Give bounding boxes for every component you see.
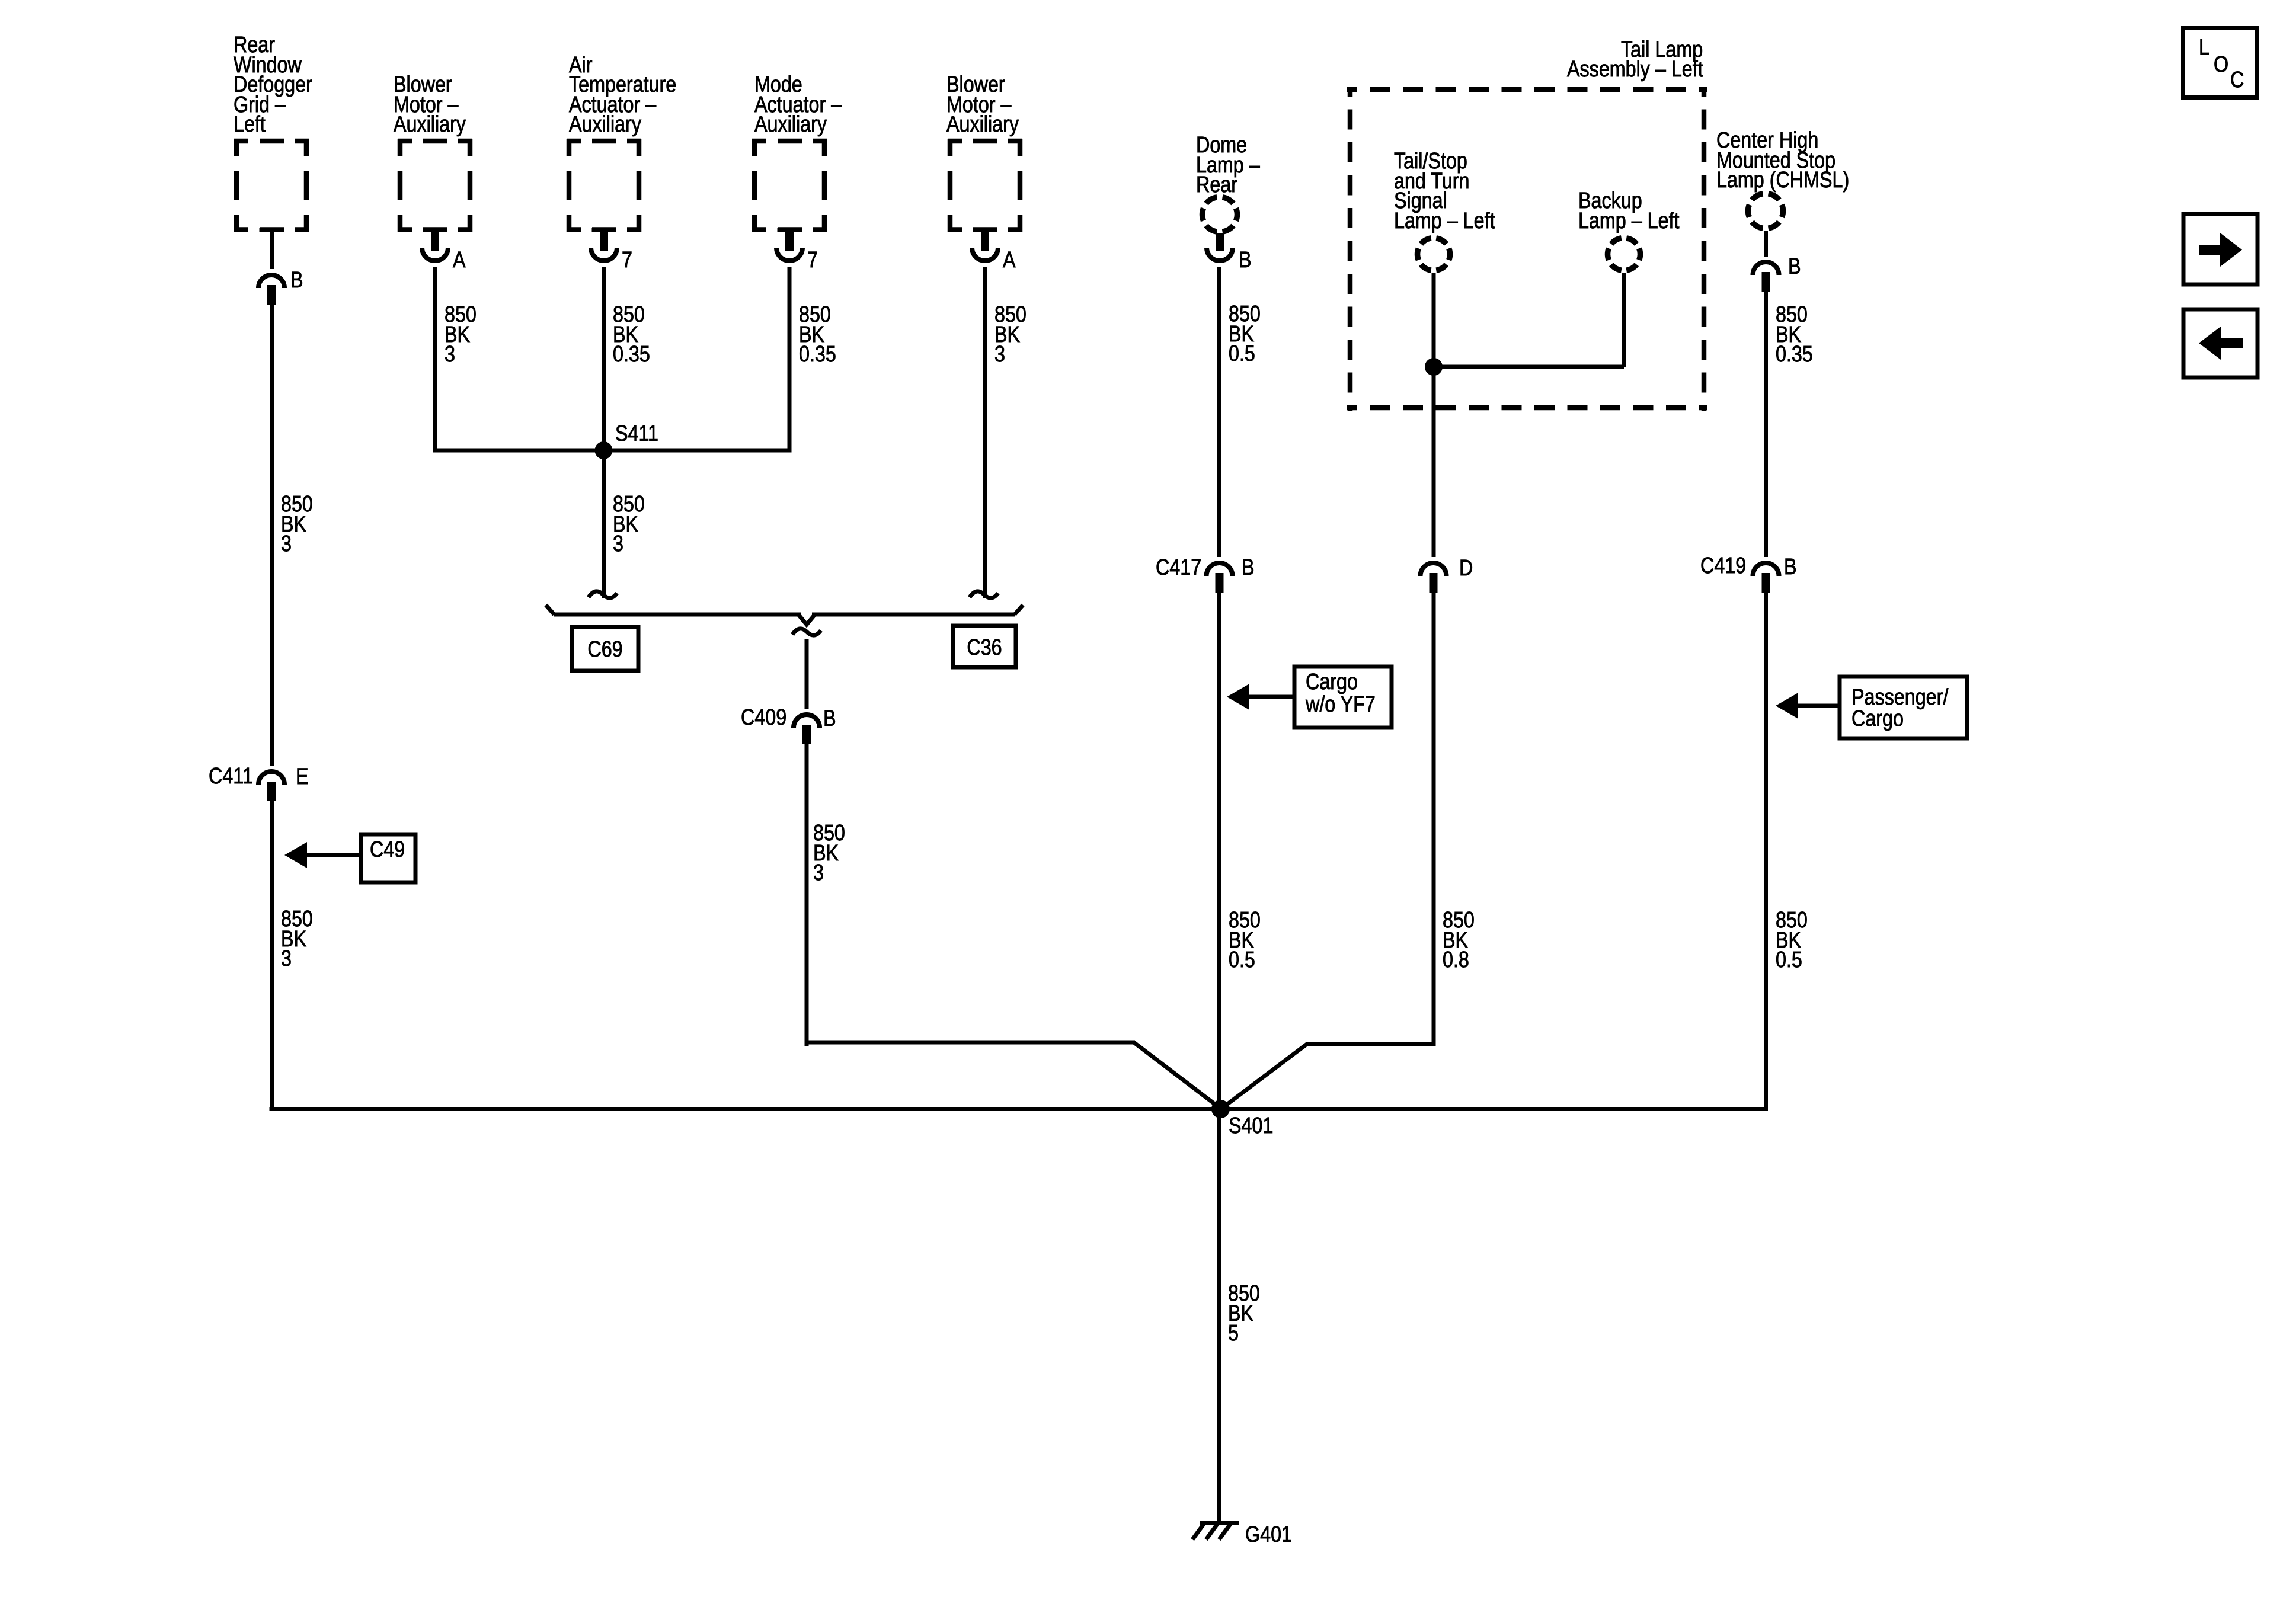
inline connector brace C69/C36 (546, 605, 1023, 625)
component box: Blower Motor - Auxiliary left (dashed) (398, 139, 472, 232)
svg-text:Lamp – Left: Lamp – Left (1578, 209, 1680, 233)
component box: Rear Window Defogger Grid - Left (dashed) (234, 139, 309, 232)
svg-text:Rear: Rear (1196, 172, 1237, 197)
svg-text:B: B (823, 706, 836, 731)
wire: horizontal run from tail branch toward S401 (1306, 1042, 1436, 1046)
wire: 850 BK 0.5 dome down to C417 (1217, 267, 1221, 557)
svg-text:3: 3 (613, 532, 623, 556)
arrow from C49 box pointing to wire (284, 842, 361, 868)
svg-text:w/o YF7: w/o YF7 (1305, 692, 1376, 717)
label: Tail Lamp Assembly - Left (1567, 37, 1703, 82)
connector male bar D (1430, 573, 1438, 593)
connector ref box C69 (572, 627, 638, 671)
connector cup A (blower1) (422, 248, 448, 261)
svg-text:E: E (296, 764, 309, 789)
svg-text:0.5: 0.5 (1229, 948, 1255, 972)
connector male bar below arch B (267, 285, 276, 305)
svg-text:0.35: 0.35 (1776, 342, 1813, 367)
terminal T-bar air temp (592, 228, 616, 232)
junction dot inside tail lamp assembly (1425, 358, 1443, 376)
svg-text:B: B (1242, 555, 1255, 580)
label: Mode Actuator - Auxiliary (754, 72, 842, 137)
svg-text:3: 3 (281, 946, 292, 971)
svg-text:Cargo: Cargo (1306, 670, 1358, 694)
svg-text:C: C (2230, 68, 2244, 92)
connector male bar C411 (267, 782, 276, 801)
connector cup A (blower2) (972, 248, 998, 261)
male pin bar air temp (600, 232, 608, 251)
svg-text:C417: C417 (1156, 555, 1201, 580)
svg-text:5: 5 (1228, 1321, 1239, 1346)
connector cup B (dome) (1207, 248, 1233, 261)
wire: 850 BK 3 from C411 down to S401 rail (270, 801, 274, 1111)
connector male bar CHMSL (1762, 272, 1770, 292)
svg-text:Lamp (CHMSL): Lamp (CHMSL) (1716, 168, 1849, 193)
wire label 850 BK 0.35 (799, 302, 836, 367)
wire: 850 BK 5 from S401 down to G401 (1217, 1109, 1221, 1521)
wire label 850 BK 0.5 (1229, 302, 1261, 366)
svg-text:B: B (1784, 555, 1797, 580)
label: Center High Mounted Stop Lamp (CHMSL) (1716, 128, 1849, 193)
wire-end squiggle below brace middle (792, 629, 821, 635)
wire: horizontal run from C409 branch toward S401 (807, 1041, 1135, 1045)
label: Air Temperature Actuator - Auxiliary (569, 53, 676, 137)
arrow from Passenger/Cargo box to CHMSL wire (1776, 693, 1840, 719)
svg-text:B: B (1239, 248, 1252, 273)
wire label 850 BK 3 (445, 302, 477, 367)
wire: tail/stop lamp down to junction (1432, 273, 1436, 367)
component box: Mode Actuator (dashed) (752, 139, 827, 232)
wire-end squiggle above C69 brace (589, 591, 617, 598)
svg-text:Cargo: Cargo (1851, 706, 1904, 731)
svg-text:7: 7 (622, 248, 632, 273)
connector arch D (1421, 563, 1447, 576)
svg-text:S401: S401 (1229, 1113, 1273, 1138)
svg-text:B: B (1788, 254, 1801, 279)
wire: 850 BK 0.5 from C419 to S401 rail (1764, 593, 1768, 1111)
svg-text:C36: C36 (967, 635, 1002, 660)
svg-text:C411: C411 (209, 764, 253, 789)
wire label 850 BK 3 (994, 302, 1027, 367)
terminal T-bar at defogger box bottom (260, 228, 284, 232)
wire: 850 BK 3 from S411 down to C69 inline connector (602, 450, 606, 598)
wire label 850 BK 0.5 (1229, 908, 1261, 972)
arrow from Cargo box to dome wire (1227, 684, 1294, 710)
svg-text:L: L (2199, 35, 2209, 60)
label: Dome Lamp - Rear (1196, 133, 1260, 197)
male pin bar dome (1216, 233, 1224, 251)
junction dot S411 (595, 441, 613, 459)
terminal T-bar blower2 (973, 228, 997, 232)
svg-text:0.8: 0.8 (1443, 948, 1469, 972)
svg-text:Auxiliary: Auxiliary (754, 112, 827, 137)
wire label 850 BK 3 (613, 492, 645, 556)
terminal T-bar blower1 (423, 228, 447, 232)
wire: 850 BK 0.35 mode down to S411 rail (788, 267, 792, 452)
male pin bar blower1 (431, 232, 439, 251)
branch ref box: Cargo w/o YF7 (1294, 667, 1392, 728)
legend box LOC (2183, 28, 2257, 98)
svg-text:C49: C49 (370, 837, 405, 862)
wire: diagonal into S401 (1134, 1042, 1221, 1109)
wire label 850 BK 0.35 (613, 302, 650, 367)
svg-text:Auxiliary: Auxiliary (946, 112, 1019, 137)
wire label 850 BK 5 (1228, 1281, 1260, 1346)
svg-text:Left: Left (234, 112, 266, 137)
lamp dashed circle: Tail/Stop and Turn Signal Lamp (1418, 238, 1450, 271)
assembly dashed box: Tail Lamp Assembly - Left (1347, 87, 1707, 411)
connector ref box C49 (361, 834, 415, 882)
svg-text:Lamp – Left: Lamp – Left (1394, 209, 1495, 233)
label: Tail/Stop and Turn Signal Lamp - Left (1394, 149, 1495, 233)
branch ref box: Passenger/Cargo (1840, 677, 1967, 738)
wire: short segment from brace to C409 (805, 639, 809, 709)
connector male bar C419 (1762, 573, 1770, 593)
connector arch C419-B (1753, 563, 1779, 576)
wire label 850 BK 3 (281, 492, 313, 556)
male pin bar mode (785, 232, 794, 251)
lamp dashed circle: CHMSL (1748, 194, 1783, 229)
wire: CHMSL pigtail (1764, 231, 1768, 257)
svg-text:0.35: 0.35 (799, 342, 836, 367)
lamp dashed circle: Dome Lamp (1203, 197, 1237, 232)
svg-text:3: 3 (445, 342, 455, 367)
terminal T-bar mode (778, 228, 802, 232)
svg-text:0.5: 0.5 (1776, 948, 1802, 972)
wire: diagonal into S401 (1220, 1044, 1307, 1110)
svg-text:O: O (2214, 52, 2228, 77)
svg-text:D: D (1459, 556, 1473, 581)
connector arch C411-E (258, 772, 284, 785)
connector arch C417-B (1207, 563, 1233, 576)
svg-text:C419: C419 (1700, 553, 1746, 578)
wire: S401 main horizontal rail (270, 1107, 1769, 1111)
svg-text:Auxiliary: Auxiliary (569, 112, 641, 137)
connector cup 7 (air temp) (591, 248, 617, 261)
svg-text:G401: G401 (1245, 1522, 1292, 1547)
connector arch B (defogger) (258, 275, 284, 288)
wire: 850 BK 0.35 air temp down through S411 (602, 267, 606, 450)
wire: 850 BK 3 blower1 down to S411 (433, 267, 437, 452)
wire: 850 BK 3 blower2 down to C36 inline connector (983, 267, 987, 598)
label: Blower Motor - Auxiliary (left) (394, 72, 466, 137)
svg-text:C69: C69 (587, 637, 622, 662)
svg-text:Assembly – Left: Assembly – Left (1567, 57, 1703, 82)
component box: Blower Motor - Auxiliary right (dashed) (948, 139, 1022, 232)
svg-text:3: 3 (994, 342, 1005, 367)
svg-text:S411: S411 (615, 421, 658, 446)
connector arch C409-B (794, 715, 820, 728)
junction dot S401 (1211, 1100, 1230, 1118)
wire-end squiggle above C36 brace (970, 591, 998, 598)
wire label 850 BK 0.35 (1776, 302, 1813, 367)
connector arch B (CHMSL) (1753, 262, 1779, 275)
connector ref box C36 (953, 626, 1016, 667)
wire: defogger pigtail (270, 232, 274, 269)
svg-text:Auxiliary: Auxiliary (394, 112, 466, 137)
svg-text:7: 7 (807, 248, 818, 273)
svg-text:3: 3 (813, 860, 824, 885)
legend box: arrow right (2183, 214, 2257, 284)
svg-text:3: 3 (281, 532, 292, 556)
wire label 850 BK 0.8 (1443, 908, 1475, 972)
wire: 850 BK 3 from C409 down (805, 744, 809, 1046)
label: Rear Window Defogger Grid - Left (234, 33, 312, 137)
wire: 850 BK 3 defogger down to C411 (270, 305, 274, 766)
ground symbol G401 (1192, 1521, 1239, 1539)
wire: junction to backup lamp (horizontal) (1434, 365, 1624, 369)
component box: Air Temperature Actuator (dashed) (567, 139, 641, 232)
male pin bar blower2 (981, 232, 989, 251)
wire: backup lamp down to horizontal (1622, 273, 1626, 367)
svg-text:C409: C409 (741, 705, 786, 730)
connector male bar C417 (1216, 573, 1224, 593)
legend box: arrow left (2183, 309, 2257, 377)
wire label 850 BK 3 (below C49) (281, 907, 313, 971)
wire: from junction down to D connector (1432, 367, 1436, 557)
connector cup 7 (mode) (776, 248, 802, 261)
label: Backup Lamp - Left (1578, 188, 1680, 233)
svg-text:A: A (1003, 248, 1016, 273)
svg-text:0.5: 0.5 (1229, 341, 1255, 366)
label: Blower Motor - Auxiliary (right) (946, 72, 1019, 137)
wire: 850 BK 0.5 from C417 to S401 (1217, 593, 1221, 1109)
connector male bar C409 (802, 725, 811, 744)
lamp dashed circle: Backup Lamp (1608, 238, 1641, 271)
wire label 850 BK 0.5 (1776, 908, 1808, 972)
wire: 850 BK 0.35 CHMSL down to C419 (1764, 292, 1768, 557)
wire: S411 horizontal rail (433, 449, 792, 453)
wire: 850 BK 0.8 from D down (1432, 593, 1436, 1046)
svg-text:B: B (290, 268, 303, 293)
svg-text:0.35: 0.35 (613, 342, 650, 367)
svg-text:A: A (453, 248, 466, 273)
wire label 850 BK 3 (813, 821, 845, 885)
